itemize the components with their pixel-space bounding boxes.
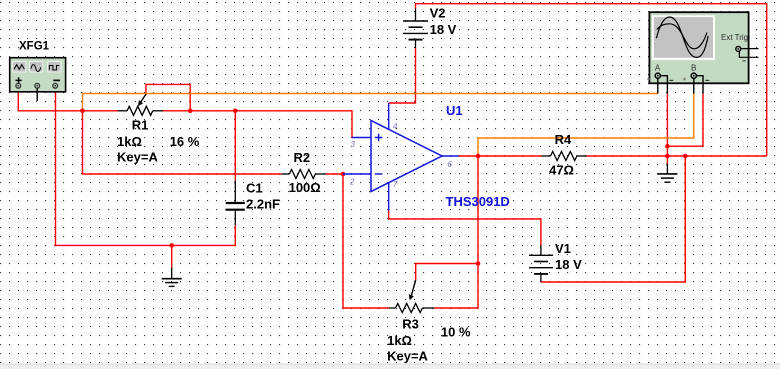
ext trig minus stub: [739, 51, 758, 57]
wire: R1 right lead to junction: [163, 110, 190, 112]
svg-text:R2: R2: [294, 150, 311, 165]
svg-text:2.2nF: 2.2nF: [246, 197, 280, 212]
svg-text:1kΩ: 1kΩ: [387, 333, 412, 348]
wire: top line to op-amp pin3 corner: [235, 111, 352, 138]
resistor R2: [281, 170, 326, 179]
svg-text:10 %: 10 %: [441, 325, 471, 340]
svg-text:1kΩ: 1kΩ: [117, 134, 142, 149]
pin 7 stub: [388, 183, 390, 211]
op-amp U1 triangle: [371, 121, 442, 192]
common stub wire: [36, 88, 38, 101]
resistor R3 potentiometer: [389, 280, 434, 313]
svg-text:R4: R4: [555, 132, 572, 147]
svg-text:R3: R3: [402, 317, 419, 332]
A minus stub wire: [660, 76, 667, 94]
wire: C1 bottom to ground run and up to XFG1 minus: [56, 88, 236, 245]
wire: V2 minus down to op-amp pin4: [389, 48, 416, 103]
wire: V1 minus right and up to output line: [541, 156, 685, 282]
svg-text:R1: R1: [132, 118, 149, 133]
B minus mark: [705, 79, 709, 81]
junction ground 1: [169, 243, 174, 248]
junction V1 minus on output line: [683, 154, 688, 159]
terminal B: [691, 73, 696, 78]
terminal plus: [16, 83, 21, 88]
wire: C1 riser from top line: [234, 111, 236, 181]
sine trace channel B: [657, 24, 707, 49]
wire: node A to R1 left lead: [83, 110, 119, 112]
wire: scope B minus down and left to A minus wire: [667, 94, 703, 146]
junction R1 right: [188, 109, 193, 114]
button triangle wave: [13, 62, 26, 73]
svg-text:Key=A: Key=A: [387, 349, 428, 364]
plus terminal label: [16, 77, 22, 83]
wire: op-amp output to R4 left: [459, 155, 542, 157]
battery V2: [403, 9, 428, 49]
capacitor C1: [226, 180, 245, 225]
terminal A: [655, 73, 660, 78]
wire: R3 wiper to feedback riser: [416, 264, 478, 281]
ground 2: [657, 164, 677, 183]
wire: R2 right to pin2 junction: [326, 173, 343, 175]
function generator XFG1: [10, 41, 66, 102]
wire: R3 right up feedback riser to output junction: [434, 156, 478, 308]
minus terminal label: [53, 79, 60, 81]
A plus stub wire: [657, 78, 659, 93]
junction output / orange / feedback: [476, 154, 481, 159]
wire: V2 plus up over top rail down to output line end: [416, 4, 767, 156]
svg-text:100Ω: 100Ω: [289, 180, 321, 195]
svg-text:Key=A: Key=A: [117, 150, 158, 165]
wire: ground 2 stub: [666, 156, 668, 164]
svg-text:4: 4: [393, 122, 398, 131]
B plus stub wire: [693, 78, 695, 94]
resistor R1 potentiometer: [118, 94, 163, 115]
ground 1: [162, 268, 182, 287]
svg-text:B: B: [691, 64, 696, 73]
sine trace channel A: [656, 17, 708, 57]
pin 6 stub: [442, 155, 459, 157]
scrollbar strip: [0, 365, 780, 369]
pin 4 stub: [388, 103, 390, 130]
B minus stub wire: [696, 76, 703, 94]
svg-text:XFG1: XFG1: [19, 41, 50, 53]
junction node A: [80, 109, 85, 114]
plus mark inside: [375, 134, 383, 142]
scope screen: [652, 15, 715, 60]
svg-text:2: 2: [349, 178, 355, 187]
terminal common: [35, 83, 40, 88]
wire: junction to junction along top line: [190, 110, 235, 112]
svg-text:16 %: 16 %: [170, 134, 200, 149]
wire: op-amp pin7 to V1 plus: [389, 211, 541, 245]
svg-text:18 V: 18 V: [430, 22, 457, 37]
svg-text:C1: C1: [246, 180, 263, 195]
minus mark inside: [375, 173, 383, 175]
terminal minus: [53, 83, 58, 88]
wire: orange scope B to output junction: [478, 94, 694, 156]
wire: R4 right to rail corner: [586, 155, 766, 157]
wire: ground 1 stub: [171, 245, 173, 268]
svg-text:47Ω: 47Ω: [549, 163, 574, 178]
wire: orange scope A to node A: [83, 94, 658, 111]
junction pin2 / R2 / feedback: [341, 172, 346, 177]
wire: XFG1 plus output down and right to node A: [18, 88, 82, 111]
svg-text:V2: V2: [430, 6, 446, 21]
button square wave: [48, 62, 61, 73]
junction R3 wiper: [476, 261, 481, 266]
pin 2 stub: [343, 173, 371, 175]
ext trig minus mark: [743, 60, 747, 62]
wire: R1 wiper loop: [146, 84, 190, 110]
wire: scope A minus down to ground node: [666, 94, 668, 156]
button sine wave: [30, 62, 43, 73]
svg-text:U1: U1: [446, 103, 463, 118]
wire: node A down and right to R2 left: [83, 111, 282, 174]
A plus mark: [647, 78, 650, 81]
B plus mark: [683, 78, 686, 81]
svg-text:6: 6: [448, 160, 453, 169]
wire: pin2 junction down to R3 left: [343, 174, 389, 308]
junction C1 riser top: [233, 109, 238, 114]
svg-text:A: A: [655, 64, 661, 73]
ext trig terminal: [736, 46, 741, 51]
svg-text:Ext Trig: Ext Trig: [721, 33, 748, 42]
battery V1: [529, 245, 553, 282]
pin 3 stub: [352, 137, 371, 139]
A minus mark: [669, 79, 673, 81]
oscilloscope XSC1: [647, 12, 759, 94]
svg-text:THS3091D: THS3091D: [446, 194, 510, 209]
resistor R4: [542, 152, 587, 161]
svg-text:V1: V1: [555, 241, 571, 256]
svg-text:3: 3: [351, 140, 356, 149]
junction ground 2 on output line: [665, 154, 670, 159]
svg-text:18 V: 18 V: [555, 257, 582, 272]
junction scope B minus tie: [665, 144, 670, 149]
ext trig plus stub: [741, 48, 758, 50]
svg-text:7: 7: [393, 180, 398, 189]
